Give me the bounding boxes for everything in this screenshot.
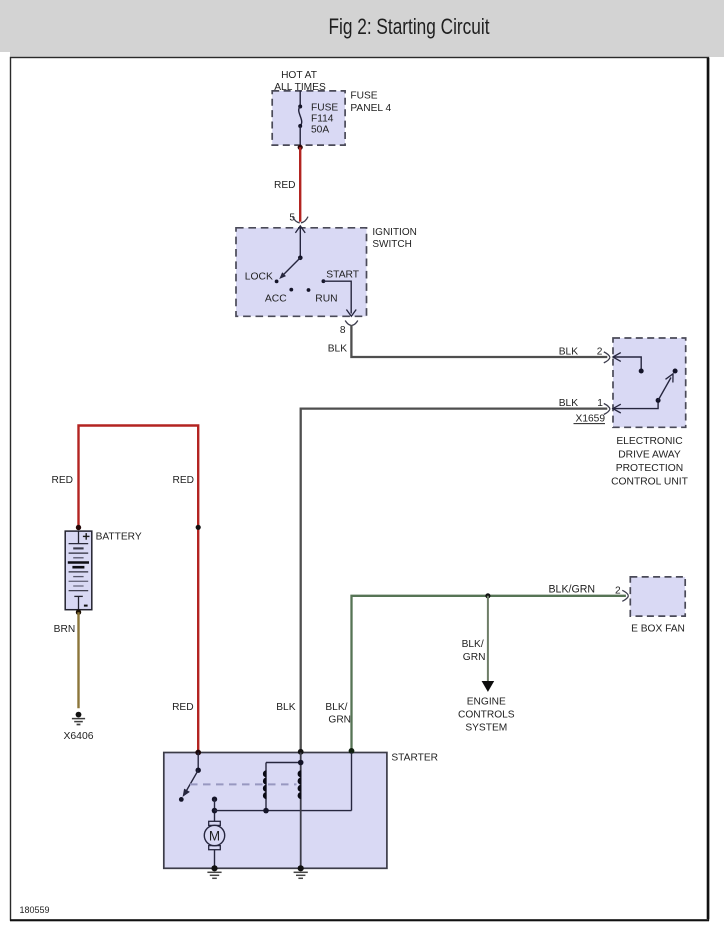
svg-text:START: START <box>326 270 360 281</box>
header bar <box>0 0 724 57</box>
starter internal: switch arm with arrow <box>183 770 199 797</box>
svg-text:BLK: BLK <box>559 347 578 358</box>
svg-text:BLK: BLK <box>328 344 347 355</box>
wire RED fuse to ignition pin 5 <box>299 147 301 222</box>
connector label X1659 (underlined) <box>574 413 606 424</box>
pin 8 connector arc <box>345 321 358 326</box>
junction dot left coil bottom <box>263 808 269 814</box>
starter internal: wire contact to motor <box>214 799 216 821</box>
ignition internal: wire START to pin 8 with down arrow <box>323 281 356 316</box>
svg-text:RED: RED <box>172 702 194 713</box>
ignition switch box (dashed) <box>236 228 367 316</box>
svg-text:180559: 180559 <box>20 905 50 915</box>
junction dot battery negative <box>76 610 81 615</box>
svg-text:ELECTRONIC: ELECTRONIC <box>616 436 683 447</box>
junction dot coil top at BLK wire <box>298 760 304 766</box>
control unit box (dashed) <box>613 338 686 427</box>
control unit internal: pin 1 arrow and wire <box>613 398 661 413</box>
svg-text:2: 2 <box>597 347 603 358</box>
svg-text:BATTERY: BATTERY <box>96 531 142 542</box>
starter internal: motor branch contact dot <box>212 797 217 802</box>
starter internal: junction dot to coil return <box>212 808 218 814</box>
starter internal: dashed mechanical linkage <box>190 783 297 785</box>
wire BRN battery to ground <box>77 612 79 708</box>
label HOT AT ALL TIMES <box>274 70 326 93</box>
svg-text:RED: RED <box>274 180 296 191</box>
control unit internal: switch arm with up-right arrow <box>658 369 678 401</box>
fuse value label FUSE F114 50A <box>311 103 338 136</box>
junction dot battery positive <box>76 525 81 530</box>
svg-text:RED: RED <box>51 475 73 486</box>
starter ground (motor) <box>207 865 221 878</box>
svg-text:ACC: ACC <box>265 294 287 305</box>
svg-text:PANEL 4: PANEL 4 <box>350 103 391 114</box>
starter ground (solenoid) <box>294 865 308 878</box>
svg-text:LOCK: LOCK <box>245 271 273 282</box>
svg-text:CONTROL UNIT: CONTROL UNIT <box>611 477 689 488</box>
node LOCK <box>275 280 279 284</box>
svg-text:SWITCH: SWITCH <box>372 239 411 250</box>
starter internal: coil top connector <box>266 762 301 764</box>
battery plus sign <box>83 533 90 540</box>
svg-text:ENGINE: ENGINE <box>467 697 506 708</box>
svg-text:5: 5 <box>289 213 295 224</box>
position labels LOCK ACC START RUN <box>245 270 360 305</box>
svg-text:IGNITION: IGNITION <box>372 227 416 238</box>
junction dot blk wire at starter <box>298 749 304 755</box>
node RUN <box>307 288 311 292</box>
svg-text:F114: F114 <box>311 114 334 125</box>
junction dot red wire at starter <box>195 750 201 756</box>
node START <box>322 279 326 283</box>
fuse F114 element <box>298 91 302 145</box>
e box fan box (dashed) <box>630 577 685 616</box>
starter internal: switch contact dot <box>196 768 201 773</box>
svg-text:RUN: RUN <box>315 294 337 305</box>
wire BLK/GRN from e-box fan left and down to starter <box>352 596 626 753</box>
arrow to engine controls system <box>482 681 495 692</box>
svg-text:SYSTEM: SYSTEM <box>465 723 507 734</box>
label FUSE PANEL 4 <box>350 91 391 114</box>
svg-text:STARTER: STARTER <box>391 753 438 764</box>
wire BLK control unit pin 1 to starter (left and down) <box>301 409 608 753</box>
svg-text:FUSE: FUSE <box>311 103 338 114</box>
wire BLK pin8 down and right to control unit pin 2 <box>351 325 607 357</box>
svg-text:M: M <box>209 828 220 843</box>
pin 5 connector arc <box>293 217 308 223</box>
svg-text:BRN: BRN <box>54 624 76 635</box>
junction dot blk/grn wire at starter <box>349 748 355 754</box>
control unit internal: pin 2 arrow and wire <box>613 353 644 374</box>
node ACC <box>289 288 293 292</box>
label ENGINE CONTROLS SYSTEM <box>458 697 515 734</box>
wire BLK/GRN branch down to engine controls <box>487 596 489 681</box>
svg-text:DRIVE AWAY: DRIVE AWAY <box>618 450 681 461</box>
svg-text:BLK: BLK <box>559 398 578 409</box>
svg-text:HOT AT: HOT AT <box>281 70 317 81</box>
svg-text:BLK: BLK <box>276 702 295 713</box>
svg-text:X6406: X6406 <box>63 731 93 742</box>
svg-text:X1659: X1659 <box>576 413 606 424</box>
fuse panel box (dashed) <box>272 91 345 145</box>
starter box <box>164 753 387 869</box>
svg-text:50A: 50A <box>311 125 329 136</box>
junction dot BLK/GRN branch <box>485 593 490 598</box>
label ELECTRONIC DRIVE AWAY PROTECTION CONTROL UNIT <box>611 436 689 488</box>
svg-text:PROTECTION: PROTECTION <box>616 463 684 474</box>
starter internal: BLK/GRN drop inside box <box>351 753 353 811</box>
svg-text:CONTROLS: CONTROLS <box>458 710 515 721</box>
junction dot at fuse box bottom <box>298 145 303 150</box>
svg-text:BLK/: BLK/ <box>325 702 347 713</box>
wire RED battery loop (up, right, down to starter) <box>79 426 199 753</box>
svg-text:FUSE: FUSE <box>350 91 377 102</box>
starter internal: feed to switch contact <box>197 753 199 771</box>
svg-text:GRN: GRN <box>328 715 351 726</box>
label IGNITION SWITCH <box>372 227 416 250</box>
ignition internal: switch arm toward LOCK <box>279 258 300 279</box>
label BLK/ GRN (branch) <box>462 639 486 663</box>
starter internal: right coil (hold-in winding on BLK wire) <box>298 770 302 799</box>
control unit pin 1 connector arc <box>604 404 610 415</box>
svg-text:2: 2 <box>615 586 621 597</box>
splice dot on red wire <box>196 525 201 530</box>
control unit pin 2 connector arc <box>604 352 610 363</box>
svg-text:BLK/GRN: BLK/GRN <box>548 584 595 596</box>
svg-text:1: 1 <box>597 398 603 409</box>
svg-text:Fig 2: Starting Circuit: Fig 2: Starting Circuit <box>329 14 490 39</box>
starter internal: coil return wire to BLK/GRN <box>215 810 352 812</box>
starter internal: BLK wire through box to ground <box>300 753 302 869</box>
starter internal: left coil (pull-in winding) <box>263 763 267 811</box>
label BLK/ GRN (starter) <box>325 702 351 726</box>
battery <box>65 531 92 610</box>
ignition internal: arrow up to pin 5 <box>295 226 305 260</box>
svg-text:BLK/: BLK/ <box>462 639 484 650</box>
ground X6406 <box>63 712 93 742</box>
svg-text:GRN: GRN <box>463 652 486 663</box>
svg-text:E BOX FAN: E BOX FAN <box>631 624 685 635</box>
svg-text:RED: RED <box>172 475 194 486</box>
motor M <box>204 821 224 868</box>
starter internal: moving contact dot <box>179 797 184 802</box>
e box fan pin connector arc <box>622 590 628 601</box>
svg-text:8: 8 <box>340 325 346 336</box>
